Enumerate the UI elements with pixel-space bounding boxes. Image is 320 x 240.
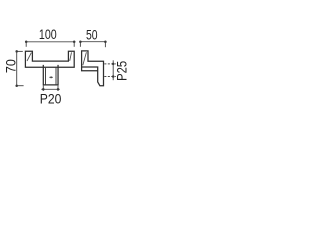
svg-text:100: 100 [39,26,57,42]
front view left flange taper line [27,53,31,61]
side view outline [82,51,104,86]
svg-text:P25: P25 [115,61,130,81]
side view tab taper line [83,52,87,65]
background [0,0,130,130]
svg-text:P20: P20 [40,91,62,107]
front view right flange taper line [70,52,72,61]
front view outline [25,51,74,67]
svg-text:70: 70 [3,59,19,73]
dimension 100 [26,42,74,47]
side view tab left edge lower part + bottom line [82,67,98,71]
dimension P25 [104,60,116,80]
svg-text:50: 50 [86,26,98,42]
dimension 50 [80,42,105,48]
front view boss center mark [49,76,52,78]
front view boss outer sides [43,65,58,85]
dimension P20 [41,86,60,91]
front view boss inner sides [45,68,47,85]
dimension 70 [17,51,24,85]
